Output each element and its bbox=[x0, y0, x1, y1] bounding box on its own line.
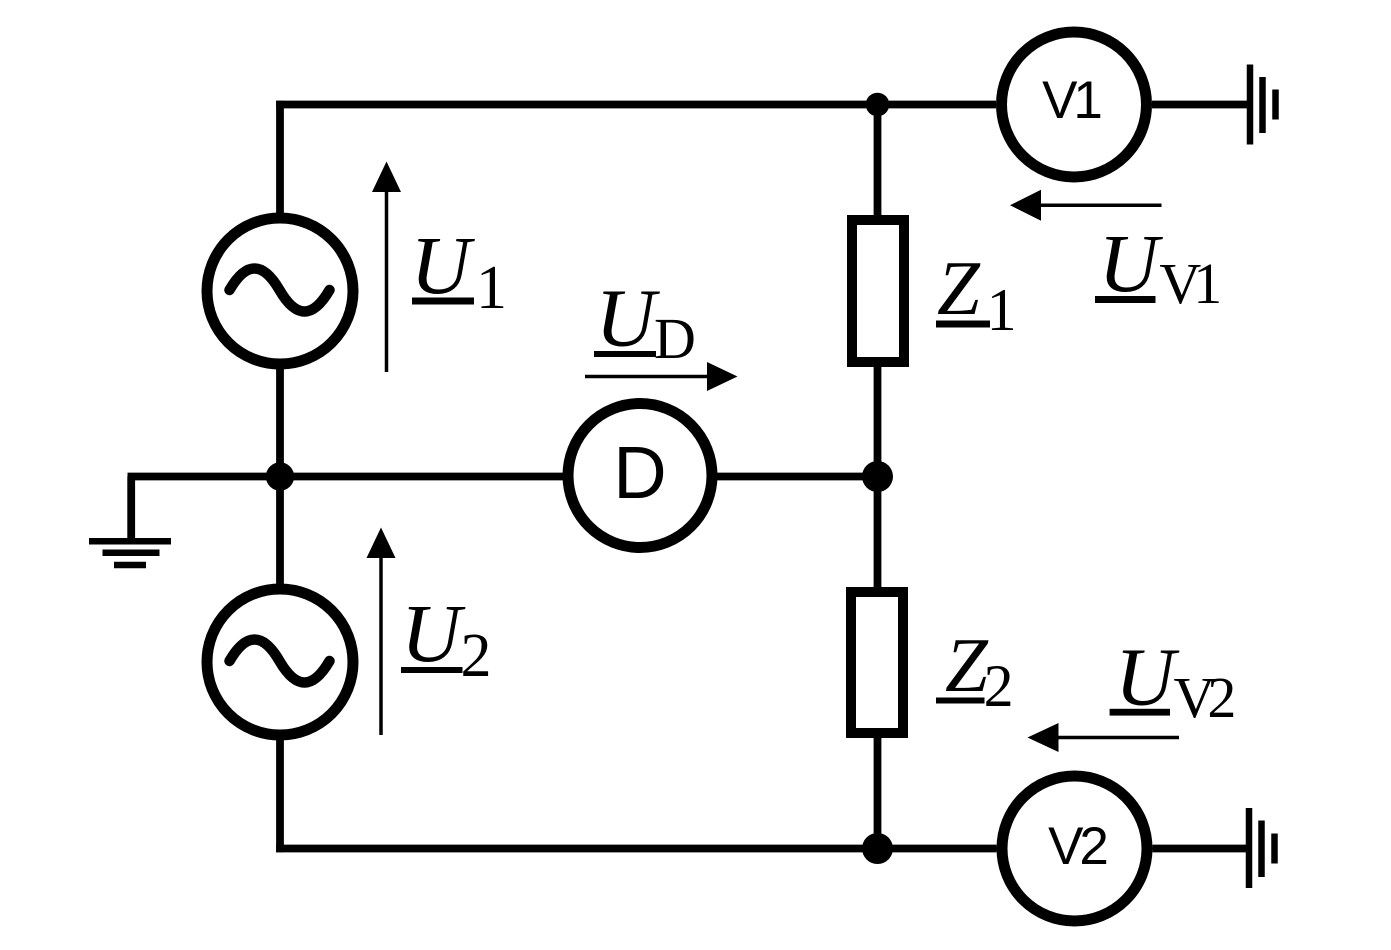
wire middle right bbox=[716, 473, 878, 481]
svg-text:1: 1 bbox=[987, 277, 1017, 343]
ground left bbox=[89, 541, 171, 565]
svg-text:D: D bbox=[654, 306, 696, 371]
wire left vertical bottom bbox=[276, 737, 284, 852]
voltmeter V1 circle bbox=[1002, 32, 1147, 177]
wire ground stub vertical bbox=[127, 477, 135, 539]
detector D circle bbox=[568, 404, 712, 548]
svg-text:U: U bbox=[1115, 631, 1180, 723]
svg-text:V1: V1 bbox=[1042, 71, 1100, 130]
wire left vertical mid bbox=[276, 366, 284, 589]
AC source U1 bbox=[207, 218, 353, 364]
svg-text:U: U bbox=[1099, 217, 1164, 309]
label U1 bbox=[411, 219, 508, 322]
sine of U2 bbox=[230, 640, 330, 683]
voltmeter V2 circle bbox=[1002, 776, 1147, 921]
svg-text:U: U bbox=[401, 587, 466, 679]
label UD bbox=[594, 272, 696, 372]
node top junction bbox=[866, 93, 890, 117]
label U2 bbox=[401, 587, 492, 690]
svg-text:Z: Z bbox=[945, 622, 989, 708]
sine of U1 bbox=[230, 269, 330, 312]
svg-text:V1: V1 bbox=[1159, 251, 1219, 316]
wire middle left bbox=[280, 473, 564, 481]
svg-text:Z: Z bbox=[937, 245, 981, 331]
svg-text:V2: V2 bbox=[1048, 817, 1106, 876]
wire bottom right to ground bbox=[1153, 845, 1248, 853]
wire top right to ground bbox=[1152, 101, 1247, 109]
label UV1 bbox=[1095, 217, 1219, 316]
arrow UV2 bbox=[1028, 723, 1180, 752]
node middle left junction bbox=[266, 462, 294, 490]
wire right vertical top bbox=[874, 101, 882, 217]
node bottom junction bbox=[862, 833, 893, 864]
wire right vertical bottom bbox=[874, 731, 882, 852]
ground top right bbox=[1250, 65, 1276, 145]
wire ground stub horizontal bbox=[128, 473, 281, 481]
svg-text:1: 1 bbox=[476, 254, 507, 322]
label UV2 bbox=[1110, 631, 1234, 731]
svg-text:D: D bbox=[613, 431, 666, 514]
node middle right junction bbox=[862, 461, 893, 492]
AC source U2 bbox=[207, 589, 353, 735]
impedance Z2 body bbox=[851, 592, 903, 733]
svg-text:2: 2 bbox=[984, 653, 1014, 719]
wire bottom bbox=[276, 845, 996, 853]
svg-text:U: U bbox=[411, 219, 476, 311]
arrow UD bbox=[585, 362, 738, 391]
wire left vertical top bbox=[276, 101, 284, 216]
svg-text:U: U bbox=[596, 272, 661, 364]
wire top bbox=[276, 101, 996, 109]
arrow U1 bbox=[372, 162, 401, 373]
arrow UV1 bbox=[1010, 190, 1162, 221]
ground bottom right bbox=[1249, 808, 1275, 888]
label Z1 bbox=[936, 245, 1017, 343]
svg-text:2: 2 bbox=[461, 622, 492, 690]
arrow U2 bbox=[367, 528, 396, 736]
label Z2 bbox=[936, 622, 1014, 719]
impedance Z1 body bbox=[852, 220, 904, 362]
wire right vertical mid bbox=[874, 360, 882, 594]
svg-text:V2: V2 bbox=[1174, 665, 1234, 730]
